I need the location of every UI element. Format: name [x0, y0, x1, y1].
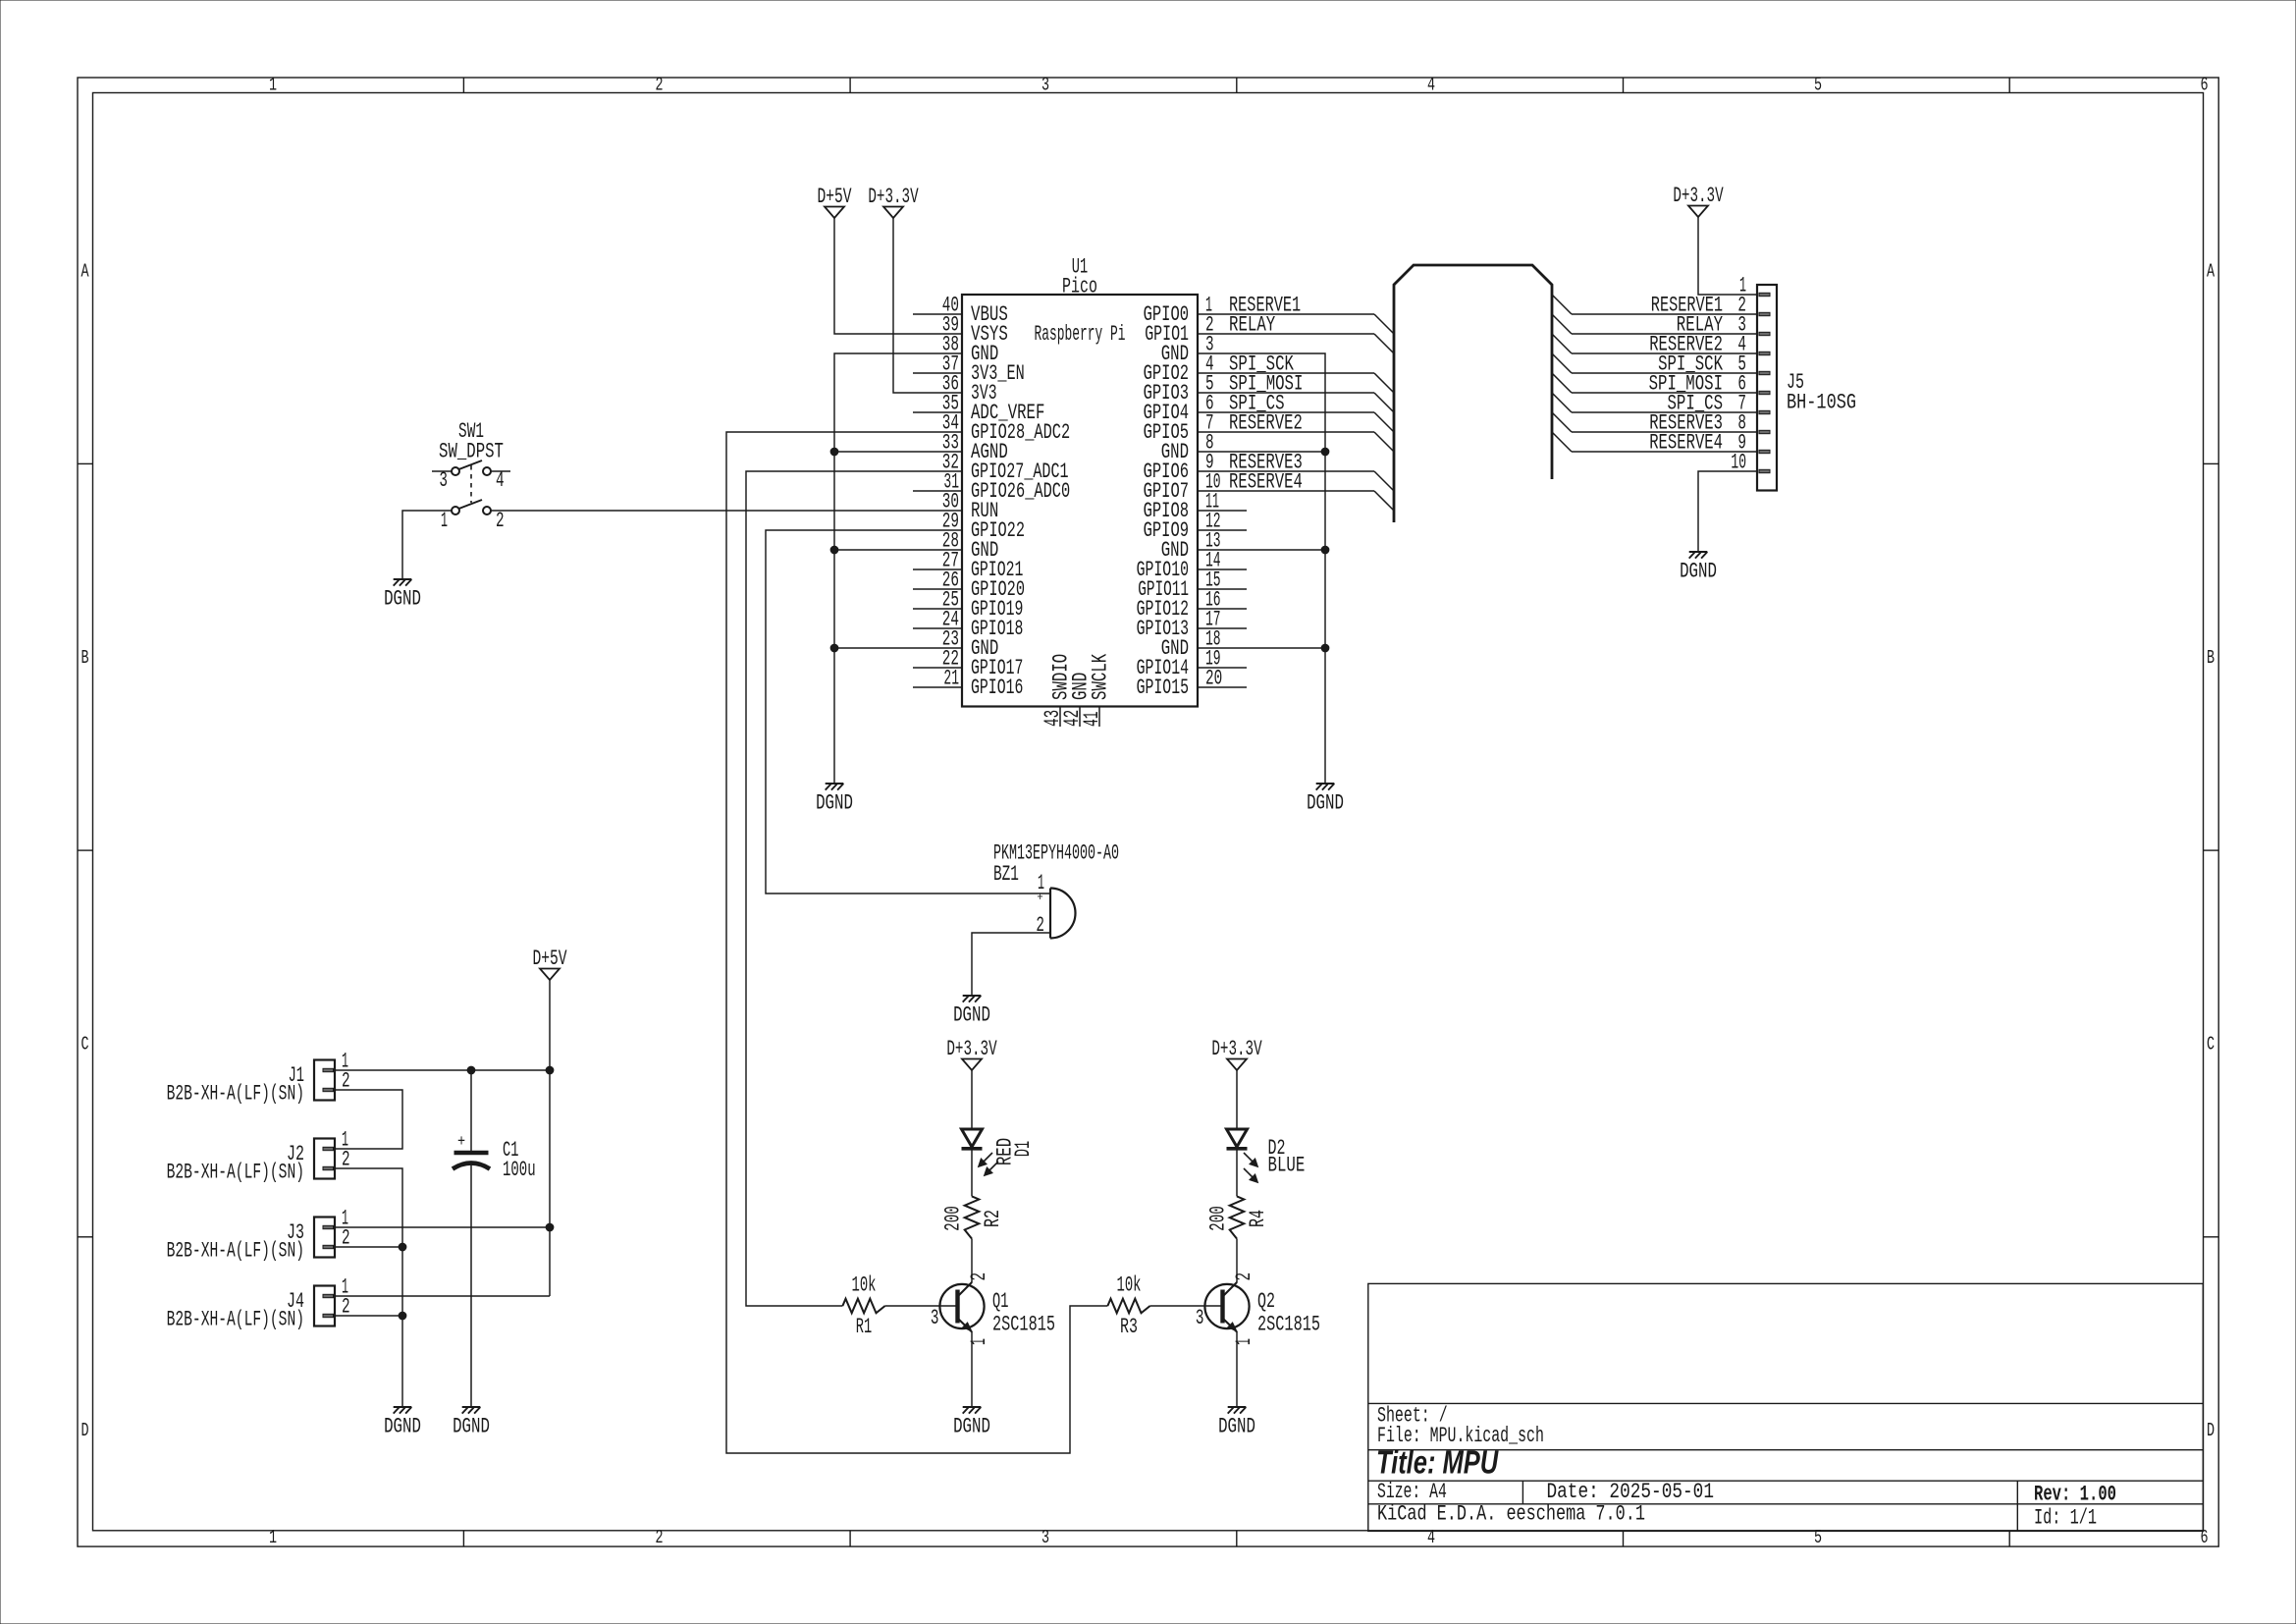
- U1 pin 32 GPIO27_ADC1: [913, 450, 1069, 484]
- bus entry SPI_CS (left): [1374, 412, 1394, 432]
- wire D+3.3V to D1 anode: [971, 1070, 973, 1129]
- wire U1 GND pin38 to left ground rail: [834, 353, 913, 784]
- svg-text:5: 5: [1814, 1527, 1822, 1548]
- ground DGND under J5: [1680, 552, 1717, 583]
- wire net SPI_SCK to J5: [1572, 372, 1757, 374]
- svg-text:DGND: DGND: [816, 790, 853, 815]
- LED D2 BLUE: [1227, 1129, 1306, 1182]
- svg-text:C: C: [80, 1033, 88, 1055]
- svg-text:D+3.3V: D+3.3V: [868, 184, 919, 208]
- U1 pin 30 RUN: [913, 489, 998, 523]
- U1 pin 1 GPIO0: [1144, 293, 1247, 327]
- U1 pin 14 GPIO10: [1137, 548, 1247, 582]
- svg-text:D+5V: D+5V: [532, 946, 567, 970]
- svg-text:A: A: [2207, 260, 2215, 282]
- svg-text:Rev: 1.00: Rev: 1.00: [2034, 1482, 2116, 1506]
- junction ground chain at J3 pin2: [399, 1243, 406, 1251]
- wire net RESERVE1 to J5: [1572, 313, 1757, 315]
- svg-text:6: 6: [2200, 74, 2208, 95]
- wire J1 pin1 to D+5V rail: [335, 1069, 550, 1071]
- svg-text:3: 3: [931, 1305, 939, 1329]
- wire net RESERVE3 from U1 to bus: [1247, 470, 1374, 472]
- svg-text:RESERVE4: RESERVE4: [1229, 469, 1303, 494]
- U1 pin 17 GPIO13: [1137, 607, 1247, 641]
- svg-text:2: 2: [655, 1527, 663, 1548]
- junction left rail GND23: [830, 644, 838, 652]
- U1 pin 20 GPIO15: [1137, 666, 1247, 700]
- wire net SPI_MOSI from U1 to bus: [1247, 392, 1374, 394]
- U1 pin 37 3V3_EN: [913, 352, 1025, 386]
- svg-text:2: 2: [655, 74, 663, 95]
- U1 pin 24 GPIO18: [913, 607, 1023, 641]
- svg-text:3: 3: [1196, 1305, 1204, 1329]
- wire D+5V rail down to J4 pin1: [549, 980, 551, 1296]
- U1 pin 19 GPIO14: [1137, 646, 1247, 680]
- wire U1 GND pin28 tap: [834, 549, 913, 551]
- wire SW1 pin1 to DGND: [402, 511, 452, 579]
- svg-text:Id: 1/1: Id: 1/1: [2034, 1505, 2097, 1530]
- junction right rail GND18: [1321, 644, 1329, 652]
- svg-text:D+3.3V: D+3.3V: [1673, 183, 1724, 207]
- wire Q1 emitter to DGND: [958, 1319, 973, 1408]
- wire net SPI_CS to J5: [1572, 411, 1757, 413]
- wire net RELAY from U1 to bus: [1247, 333, 1374, 335]
- wire D2 cathode to R4: [1236, 1149, 1238, 1197]
- transistor Q2 2SC1815 (NPN 2SC1815): [1196, 1272, 1320, 1345]
- U1 pin 16 GPIO12: [1137, 587, 1247, 622]
- U1 pin 22 GPIO17: [913, 646, 1023, 680]
- power flag D+3.3V: [868, 184, 919, 218]
- ground DGND under Q2: [1218, 1407, 1255, 1438]
- U1 pin 27 GPIO21: [913, 548, 1023, 582]
- svg-text:2: 2: [496, 508, 505, 532]
- junction ground chain at J4 pin2: [399, 1312, 406, 1320]
- svg-text:3: 3: [1041, 1527, 1049, 1548]
- connector J2 B2B-XH-A(LF)(SN): [167, 1127, 350, 1184]
- U1 pin 12 GPIO9: [1144, 509, 1247, 543]
- svg-text:A: A: [80, 260, 88, 282]
- svg-text:1: 1: [1231, 1338, 1255, 1345]
- power flag D+3.3V: [946, 1036, 997, 1070]
- wire net RESERVE4 from U1 to bus: [1247, 490, 1374, 492]
- wire J2 pin2 down to DGND (ground chain): [335, 1168, 402, 1407]
- svg-text:C: C: [2207, 1033, 2215, 1055]
- svg-text:B: B: [2207, 647, 2215, 669]
- U1 pin 8 GND: [1161, 430, 1247, 464]
- wire R3 to Q2 base: [1150, 1305, 1223, 1307]
- wire J4 pin1 to D+5V rail: [335, 1295, 550, 1297]
- junction left rail AGND: [830, 448, 838, 456]
- U1 pin 2 GPIO1: [1145, 312, 1247, 347]
- svg-text:1: 1: [441, 508, 448, 532]
- svg-text:+: +: [457, 1134, 465, 1151]
- U1 pin 41 SWCLK: [1079, 653, 1112, 727]
- U1 pin 23 GND: [913, 626, 998, 661]
- bus entry RESERVE4 (left): [1374, 491, 1394, 511]
- wire J3 pin1 to D+5V rail: [335, 1226, 550, 1228]
- svg-text:2SC1815: 2SC1815: [1257, 1312, 1320, 1336]
- ground DGND under BZ1: [953, 996, 990, 1027]
- svg-text:DGND: DGND: [384, 1414, 421, 1438]
- ground DGND under U1 right: [1307, 784, 1344, 815]
- svg-text:2: 2: [966, 1272, 990, 1281]
- svg-text:41: 41: [1079, 711, 1103, 727]
- bus entry RESERVE2 (left): [1374, 432, 1394, 452]
- svg-text:B2B-XH-A(LF)(SN): B2B-XH-A(LF)(SN): [167, 1307, 304, 1331]
- svg-text:1: 1: [269, 74, 277, 95]
- U1 pin 43 SWDIO: [1040, 654, 1073, 727]
- wire BZ1 pin2 to DGND: [972, 933, 1050, 996]
- sheet zone column labels bottom: [269, 1527, 2209, 1548]
- svg-text:D: D: [2207, 1420, 2215, 1441]
- bus entry RESERVE3 (right): [1552, 412, 1572, 432]
- svg-text:3: 3: [439, 467, 448, 492]
- connector J5 BH-10SG: [1731, 273, 1856, 491]
- resistor R3 10k: [1107, 1272, 1149, 1339]
- ground DGND under C1: [453, 1407, 490, 1438]
- U1 pin 9 GPIO6: [1144, 450, 1247, 484]
- bus entry RELAY (left): [1374, 334, 1394, 353]
- bus entry SPI_MOSI (right): [1552, 373, 1572, 393]
- sheet zone row labels right: [2207, 260, 2215, 1440]
- U1 pin 10 GPIO7: [1144, 469, 1247, 504]
- bus entry SPI_CS (right): [1552, 393, 1572, 412]
- svg-text:GPIO16: GPIO16: [971, 675, 1023, 699]
- svg-text:2: 2: [1231, 1272, 1255, 1281]
- U1 pin 36 3V3: [913, 371, 997, 406]
- wire U1 GND pin23 tap: [834, 647, 913, 649]
- LED D1 RED: [962, 1129, 1036, 1175]
- svg-text:D+3.3V: D+3.3V: [1211, 1036, 1262, 1060]
- svg-text:4: 4: [496, 467, 505, 492]
- bus entry RELAY (right): [1552, 314, 1572, 334]
- bus entry RESERVE1 (left): [1374, 314, 1394, 334]
- ground DGND under connector chain: [384, 1407, 421, 1438]
- power flag D+5V: [532, 946, 567, 980]
- capacitor C1 100u (polarized): [453, 1070, 536, 1407]
- junction D+5V rail at J3 pin1 row: [546, 1223, 554, 1231]
- wire net RELAY to J5: [1572, 333, 1757, 335]
- wire net RESERVE2 from U1 to bus: [1247, 431, 1374, 433]
- svg-text:RELAY: RELAY: [1229, 312, 1275, 337]
- wire D+5V to U1 VSYS: [834, 218, 913, 334]
- transistor Q1 2SC1815 (NPN 2SC1815): [931, 1272, 1055, 1345]
- wire net RESERVE3 to J5: [1572, 431, 1757, 433]
- U1 pin 25 GPIO19: [913, 587, 1023, 622]
- svg-text:2SC1815: 2SC1815: [992, 1312, 1055, 1336]
- svg-text:D+5V: D+5V: [817, 184, 852, 208]
- svg-text:1: 1: [269, 1527, 277, 1548]
- svg-text:100u: 100u: [503, 1157, 536, 1181]
- svg-text:BH-10SG: BH-10SG: [1787, 390, 1856, 414]
- svg-text:200: 200: [1205, 1206, 1230, 1231]
- U1 pin 38 GND: [913, 332, 998, 366]
- junction right rail GND13: [1321, 546, 1329, 554]
- connector J1 B2B-XH-A(LF)(SN): [167, 1049, 350, 1106]
- U1 pin 26 GPIO20: [913, 568, 1025, 602]
- bus entry RESERVE2 (right): [1552, 334, 1572, 353]
- wire D1 cathode to R2: [971, 1149, 973, 1197]
- wire net SPI_SCK from U1 to bus: [1247, 372, 1374, 374]
- U1 pin 34 GPIO28_ADC2: [913, 410, 1070, 445]
- wire U1 GPIO28_ADC2 to R3 loop: [726, 432, 1107, 1453]
- wire U1 AGND tap: [834, 451, 913, 453]
- svg-text:Raspberry Pi: Raspberry Pi: [1035, 321, 1126, 346]
- U1 pin 18 GND: [1161, 626, 1247, 661]
- wire D+3.3V to D2 anode: [1236, 1070, 1238, 1129]
- ground DGND under Q1: [953, 1407, 990, 1438]
- connector J4 B2B-XH-A(LF)(SN): [167, 1274, 350, 1331]
- wire R2 to Q1 collector: [958, 1239, 973, 1297]
- U1 pin 7 GPIO5: [1144, 410, 1247, 445]
- wire J4 pin2 to ground chain: [335, 1315, 402, 1317]
- switch SW1 SW_DPST: [432, 418, 510, 532]
- wire R1 to Q1 base: [885, 1305, 958, 1307]
- junction left rail GND28: [830, 546, 838, 554]
- wire net RESERVE4 to J5: [1572, 451, 1757, 453]
- U1 pin 15 GPIO11: [1138, 568, 1247, 602]
- bus entry RESERVE4 (right): [1552, 432, 1572, 452]
- svg-text:BLUE: BLUE: [1268, 1153, 1306, 1177]
- svg-text:SW_DPST: SW_DPST: [439, 439, 504, 463]
- wire J5 pin10 to DGND: [1698, 471, 1757, 552]
- bus entry RESERVE3 (left): [1374, 471, 1394, 491]
- svg-text:DGND: DGND: [953, 1002, 990, 1027]
- svg-text:BZ1: BZ1: [993, 861, 1019, 886]
- wire net SPI_MOSI to J5: [1572, 392, 1757, 394]
- U1 pin 13 GND: [1161, 528, 1247, 563]
- U1 pin 5 GPIO3: [1144, 371, 1247, 406]
- resistor R2 200: [940, 1196, 1005, 1238]
- bus entry SPI_MOSI (left): [1374, 393, 1394, 412]
- bus (thick) between U1 and J5: [1394, 265, 1552, 522]
- svg-text:Q2: Q2: [1257, 1288, 1275, 1313]
- resistor R4 200: [1205, 1196, 1270, 1238]
- U1 pin 35 ADC_VREF: [913, 391, 1044, 425]
- wire J3 pin2 to ground chain: [335, 1246, 402, 1248]
- bus entry RESERVE1 (right): [1552, 295, 1572, 314]
- wire U1 GND pin18 tap: [1247, 647, 1325, 649]
- svg-text:DGND: DGND: [1680, 559, 1717, 583]
- wire net RESERVE2 to J5: [1572, 352, 1757, 354]
- svg-text:4: 4: [1427, 1527, 1435, 1548]
- svg-text:RESERVE2: RESERVE2: [1229, 410, 1303, 435]
- junction D+5V rail at J1 pin1 row: [546, 1066, 554, 1074]
- svg-text:RESERVE4: RESERVE4: [1649, 430, 1723, 455]
- svg-text:DGND: DGND: [384, 586, 421, 611]
- buzzer BZ1 PKM13EPYH4000-A0: [993, 840, 1119, 939]
- title block outline: [1368, 1283, 2204, 1531]
- svg-text:DGND: DGND: [1218, 1414, 1255, 1438]
- svg-text:DGND: DGND: [453, 1414, 490, 1438]
- wire U1 GND pin8 tap: [1247, 451, 1325, 453]
- U1 pin 40 VBUS: [913, 293, 1008, 327]
- wire D+3.3V to U1 3V3: [893, 218, 913, 393]
- svg-text:DGND: DGND: [1307, 790, 1344, 815]
- svg-text:R1: R1: [856, 1314, 872, 1338]
- svg-text:2: 2: [1036, 912, 1044, 937]
- svg-text:B2B-XH-A(LF)(SN): B2B-XH-A(LF)(SN): [167, 1238, 304, 1263]
- wire U1 GPIO22 to buzzer BZ1: [766, 530, 1050, 893]
- svg-text:GPIO15: GPIO15: [1137, 675, 1189, 699]
- svg-text:R4: R4: [1246, 1210, 1270, 1227]
- svg-text:D: D: [80, 1420, 88, 1441]
- svg-text:6: 6: [2200, 1527, 2208, 1548]
- wire U1 GPIO27_ADC1 to R1: [746, 471, 913, 1306]
- junction C1 top at J1 pin1 row: [467, 1066, 475, 1074]
- power flag D+3.3V: [1211, 1036, 1262, 1070]
- wire net RESERVE1 from U1 to bus: [1247, 313, 1374, 315]
- U1 pin 3 GND: [1161, 332, 1247, 366]
- wire D+3.3V to J5 pin1: [1698, 217, 1757, 295]
- U1 pin 33 AGND: [913, 430, 1008, 464]
- svg-text:Title: MPU: Title: MPU: [1376, 1444, 1499, 1481]
- power flag D+5V: [817, 184, 852, 218]
- svg-text:R3: R3: [1120, 1314, 1138, 1338]
- U1 pin 6 GPIO4: [1144, 391, 1247, 425]
- svg-text:1: 1: [966, 1338, 990, 1345]
- svg-text:D+3.3V: D+3.3V: [946, 1036, 997, 1060]
- svg-text:3: 3: [1041, 74, 1049, 95]
- svg-text:10k: 10k: [1117, 1272, 1142, 1297]
- U1 pin 28 GND: [913, 528, 998, 563]
- wire R4 to Q2 collector: [1223, 1239, 1238, 1297]
- U1 symbol body (Raspberry Pi Pico): [962, 295, 1198, 707]
- svg-text:+: +: [1037, 891, 1042, 904]
- wire SW1 pin2 to U1 RUN: [491, 510, 913, 512]
- junction right rail GND8: [1321, 448, 1329, 456]
- ground DGND under SW1: [384, 579, 421, 611]
- wire J1 pin2 to J2 pin1: [335, 1090, 402, 1149]
- svg-text:5: 5: [1814, 74, 1822, 95]
- svg-text:10k: 10k: [852, 1272, 877, 1297]
- svg-text:KiCad E.D.A. eeschema 7.0.1: KiCad E.D.A. eeschema 7.0.1: [1377, 1501, 1645, 1526]
- svg-text:Pico: Pico: [1062, 274, 1097, 298]
- U1 pin 29 GPIO22: [913, 509, 1025, 543]
- U1 pin 42 GND: [1059, 673, 1093, 727]
- resistor R1 10k: [842, 1272, 884, 1339]
- wire Q2 emitter to DGND: [1223, 1319, 1238, 1408]
- sheet zone row labels left: [80, 260, 88, 1440]
- svg-text:D1: D1: [1010, 1141, 1035, 1157]
- U1 pin 39 VSYS: [913, 312, 1008, 347]
- U1 pin 21 GPIO16: [913, 666, 1023, 700]
- svg-text:200: 200: [940, 1206, 965, 1231]
- wire U1 GND pin13 tap: [1247, 549, 1325, 551]
- svg-text:21: 21: [943, 666, 959, 690]
- wire net SPI_CS from U1 to bus: [1247, 411, 1374, 413]
- bus entry SPI_SCK (right): [1552, 353, 1572, 373]
- wire U1 GND pin3 to right ground rail: [1247, 353, 1325, 784]
- svg-text:20: 20: [1205, 666, 1222, 690]
- svg-text:Q1: Q1: [992, 1288, 1008, 1313]
- svg-text:DGND: DGND: [953, 1414, 990, 1438]
- power flag D+3.3V: [1673, 183, 1724, 217]
- svg-text:R2: R2: [981, 1210, 1005, 1227]
- U1 pin 31 GPIO26_ADC0: [913, 469, 1070, 504]
- ground DGND under U1 left: [816, 784, 853, 815]
- svg-text:B2B-XH-A(LF)(SN): B2B-XH-A(LF)(SN): [167, 1081, 304, 1106]
- title block row lines: [1368, 1403, 2204, 1531]
- sheet zone column labels top: [269, 74, 2209, 95]
- U1 pin 11 GPIO8: [1144, 489, 1247, 523]
- svg-text:4: 4: [1427, 74, 1435, 95]
- U1 pin 4 GPIO2: [1144, 352, 1247, 386]
- bus entry SPI_SCK (left): [1374, 373, 1394, 393]
- svg-text:B2B-XH-A(LF)(SN): B2B-XH-A(LF)(SN): [167, 1160, 304, 1184]
- svg-text:SWCLK: SWCLK: [1088, 653, 1112, 700]
- connector J3 B2B-XH-A(LF)(SN): [167, 1206, 350, 1263]
- svg-text:B: B: [80, 647, 88, 669]
